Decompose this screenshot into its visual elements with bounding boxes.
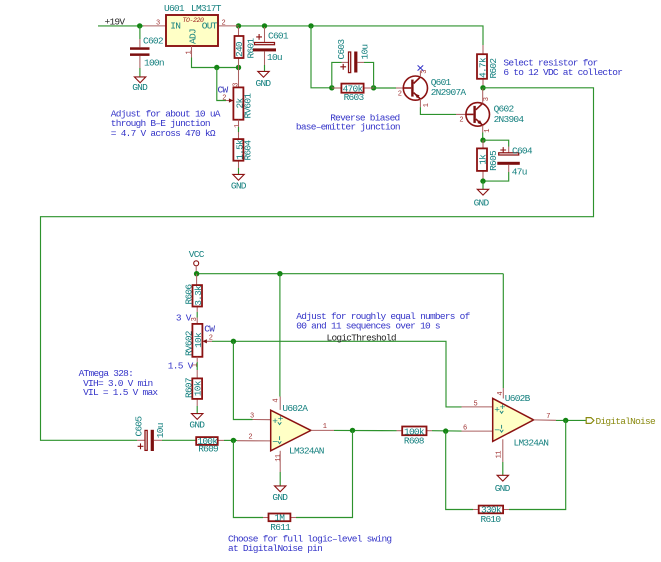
svg-text:1: 1 [185, 51, 193, 55]
svg-text:R611: R611 [270, 522, 291, 533]
svg-text:3: 3 [250, 412, 254, 420]
wire feedback R610 [446, 431, 473, 509]
svg-text:GND: GND [189, 419, 205, 430]
svg-text:R603: R603 [344, 92, 365, 103]
svg-text:GND: GND [132, 82, 148, 93]
svg-text:2: 2 [222, 95, 226, 103]
svg-text:TO-220: TO-220 [183, 17, 205, 24]
svg-text:1: 1 [423, 103, 431, 107]
ground C601 [256, 71, 272, 89]
op-amp regulator U601 LM317T [143, 3, 239, 55]
junction Q602 collector [480, 85, 485, 90]
svg-text:DigitalNoise: DigitalNoise [596, 416, 656, 427]
resistor R609 [196, 436, 224, 454]
svg-text:6: 6 [463, 425, 467, 433]
svg-text:R601: R601 [246, 38, 257, 59]
op-amp U602A [237, 397, 334, 486]
svg-text:C602: C602 [143, 36, 164, 47]
wire ADJ node [192, 46, 239, 68]
svg-text:C604: C604 [512, 145, 533, 156]
note 3V [176, 313, 192, 324]
wire U602B power feed [502, 274, 504, 388]
svg-text:1.5 V: 1.5 V [168, 361, 194, 372]
no-connect X Q601 collector [418, 65, 424, 70]
wire wiper RV601 [217, 68, 226, 101]
wire R606 to RV602 [196, 312, 198, 318]
junction emitter bottom node [480, 178, 485, 183]
svg-text:11: 11 [495, 451, 503, 459]
resistor R611 [263, 513, 296, 533]
svg-text:7: 7 [546, 413, 550, 421]
svg-text:R610: R610 [481, 514, 502, 525]
svg-text:LM317T: LM317T [191, 3, 222, 14]
wire U602A output [334, 429, 397, 431]
svg-text:1: 1 [484, 129, 492, 133]
wire emitter to C604 top [483, 140, 509, 146]
junction VCC [194, 271, 199, 276]
svg-text:VIL = 1.5 V max: VIL = 1.5 V max [83, 387, 158, 398]
svg-text:10u: 10u [155, 423, 166, 438]
svg-text:ADJ: ADJ [188, 29, 199, 44]
svg-text:240: 240 [234, 41, 245, 57]
resistor R610 [473, 505, 509, 525]
wire U602A power feed [279, 274, 281, 397]
wire Q602 emitter [482, 133, 484, 141]
svg-text:R606: R606 [184, 284, 195, 305]
hierarchical label DigitalNoise [586, 416, 656, 427]
svg-text:base–emitter junction: base–emitter junction [296, 122, 400, 133]
junction U602A power branch [277, 271, 282, 276]
capacitor C603 [336, 39, 371, 73]
wire R610 to output [509, 420, 566, 509]
transistor Q601 [396, 70, 466, 107]
svg-text:CW: CW [204, 323, 215, 334]
svg-text:11: 11 [275, 454, 283, 462]
wire R609 to pin2 junction [224, 439, 237, 441]
svg-text:GND: GND [231, 180, 247, 191]
wire wiper to U602A pin3 [233, 341, 252, 419]
junction wiper node bottom [231, 339, 236, 344]
resistor R605 [477, 140, 499, 181]
svg-text:2N3904: 2N3904 [494, 114, 525, 125]
junction R601 bottom [236, 65, 241, 70]
svg-text:2: 2 [248, 433, 252, 441]
svg-text:2: 2 [459, 117, 463, 125]
wire to Q601 base [374, 87, 396, 89]
junction wiper node [214, 65, 219, 70]
op-amp U602B [462, 388, 557, 475]
svg-text:C605: C605 [133, 416, 144, 437]
note 1.5V [168, 361, 194, 372]
svg-text:6 to 12 VDC at collector: 6 to 12 VDC at collector [503, 67, 622, 78]
wire Q601 emitter to Q602 base [420, 107, 456, 114]
wire branch to C603 network [311, 26, 332, 88]
svg-text:10u: 10u [360, 45, 371, 60]
svg-text:RV602: RV602 [184, 330, 195, 356]
svg-text:1: 1 [192, 363, 200, 367]
svg-text:Q602: Q602 [494, 103, 515, 114]
svg-text:GND: GND [495, 483, 511, 494]
note select resistor [503, 57, 622, 78]
note adjust equal [296, 311, 470, 332]
svg-text:3 V: 3 V [176, 313, 192, 324]
svg-text:GND: GND [272, 492, 288, 503]
resistor R601 [234, 27, 256, 68]
svg-text:R607: R607 [183, 378, 194, 398]
resistor R606 [184, 274, 204, 312]
node +19V [105, 16, 126, 27]
svg-text:C603: C603 [336, 39, 347, 60]
svg-text:at DigitalNoise pin: at DigitalNoise pin [228, 543, 322, 554]
svg-text:3: 3 [233, 83, 241, 87]
wire top rail to R602 [239, 26, 484, 45]
svg-text:2N2907A: 2N2907A [431, 87, 467, 98]
svg-text:R608: R608 [404, 436, 425, 447]
svg-text:2: 2 [222, 19, 226, 27]
resistor R608 [397, 426, 433, 446]
svg-text:10u: 10u [267, 52, 282, 63]
junction input [137, 23, 142, 28]
capacitor C601 [253, 27, 289, 71]
ground C602 [132, 77, 148, 93]
wire VCC rail [197, 273, 504, 275]
resistor R602 [477, 45, 499, 88]
ground R604 [231, 168, 247, 191]
svg-text:IN: IN [170, 21, 180, 32]
junction C603 branch top [308, 23, 313, 28]
junction C603 left [329, 85, 334, 90]
wire C605 to R609 [162, 439, 196, 441]
svg-text:LM324AN: LM324AN [289, 446, 324, 457]
capacitor C604 [483, 145, 533, 181]
svg-text:4: 4 [273, 399, 281, 403]
transistor Q602 [456, 89, 524, 133]
wire R611 to output [296, 430, 353, 517]
ground R607 [189, 406, 205, 430]
note reverse biased [296, 113, 400, 133]
svg-text:R605: R605 [488, 150, 499, 171]
svg-text:2: 2 [398, 91, 402, 99]
svg-text:LM324AN: LM324AN [514, 437, 549, 448]
svg-text:VCC: VCC [189, 249, 205, 260]
potentiometer RV601 [218, 68, 254, 129]
svg-text:100n: 100n [144, 58, 164, 69]
junction emitter node [480, 138, 485, 143]
resistor R604 [233, 132, 253, 168]
junction U602A pin2 node [231, 438, 236, 443]
svg-text:GND: GND [474, 197, 490, 208]
resistor R607 [183, 370, 203, 406]
svg-text:4: 4 [497, 392, 505, 396]
svg-text:OUT: OUT [202, 21, 218, 32]
wire feedback R611 [233, 440, 263, 517]
svg-text:GND: GND [256, 78, 272, 89]
wire C603 loop left [332, 62, 342, 87]
junction C603 right [371, 85, 376, 90]
wire RV602 to R607 [196, 362, 198, 370]
power flag VCC [189, 249, 205, 274]
wire RV601 to R604 [238, 127, 240, 132]
capacitor C605 [133, 416, 166, 451]
note choose swing [228, 533, 391, 554]
capacitor C602 [130, 26, 164, 77]
svg-text:LogicThreshold: LogicThreshold [327, 333, 396, 344]
ground Q602 [474, 181, 490, 208]
svg-text:RV601: RV601 [243, 93, 254, 119]
svg-text:5: 5 [474, 400, 478, 408]
svg-text:R609: R609 [198, 444, 219, 455]
label LogicThreshold [327, 333, 396, 344]
wire feedback long loop [41, 88, 594, 441]
svg-text:3: 3 [156, 19, 160, 27]
svg-text:R604: R604 [243, 140, 254, 161]
svg-text:C601: C601 [268, 31, 289, 42]
svg-text:1: 1 [323, 423, 327, 431]
note adjust 10uA [111, 109, 221, 139]
svg-text:47u: 47u [512, 166, 527, 177]
svg-text:U602A: U602A [282, 403, 308, 414]
ground U602A [272, 486, 288, 503]
wire C603 loop right [364, 62, 374, 87]
svg-text:U601: U601 [164, 3, 185, 14]
svg-text:3: 3 [191, 317, 199, 321]
svg-text:3: 3 [483, 97, 491, 101]
junction U602A output [350, 428, 355, 433]
svg-text:U602B: U602B [505, 393, 531, 404]
ground U602B [495, 475, 511, 494]
junction C601 top [262, 23, 267, 28]
wire U602B output [556, 419, 586, 421]
resistor R603 [332, 84, 374, 103]
svg-text:= 4.7 V across 470 kΩ: = 4.7 V across 470 kΩ [111, 128, 216, 139]
junction U602B output [563, 418, 568, 423]
wire input rail [98, 25, 144, 27]
junction R601 top [236, 23, 241, 28]
wire wiper RV602 to LogicThreshold [212, 341, 462, 407]
svg-text:R602: R602 [488, 58, 499, 79]
svg-text:00 and 11 sequences over 10 s: 00 and 11 sequences over 10 s [296, 321, 440, 332]
junction U602B pin6 node [443, 428, 448, 433]
wire R608 to pin6 junction [432, 430, 462, 432]
potentiometer RV602 [184, 317, 216, 367]
note ATmega [79, 368, 159, 398]
svg-text:10k: 10k [193, 332, 204, 348]
